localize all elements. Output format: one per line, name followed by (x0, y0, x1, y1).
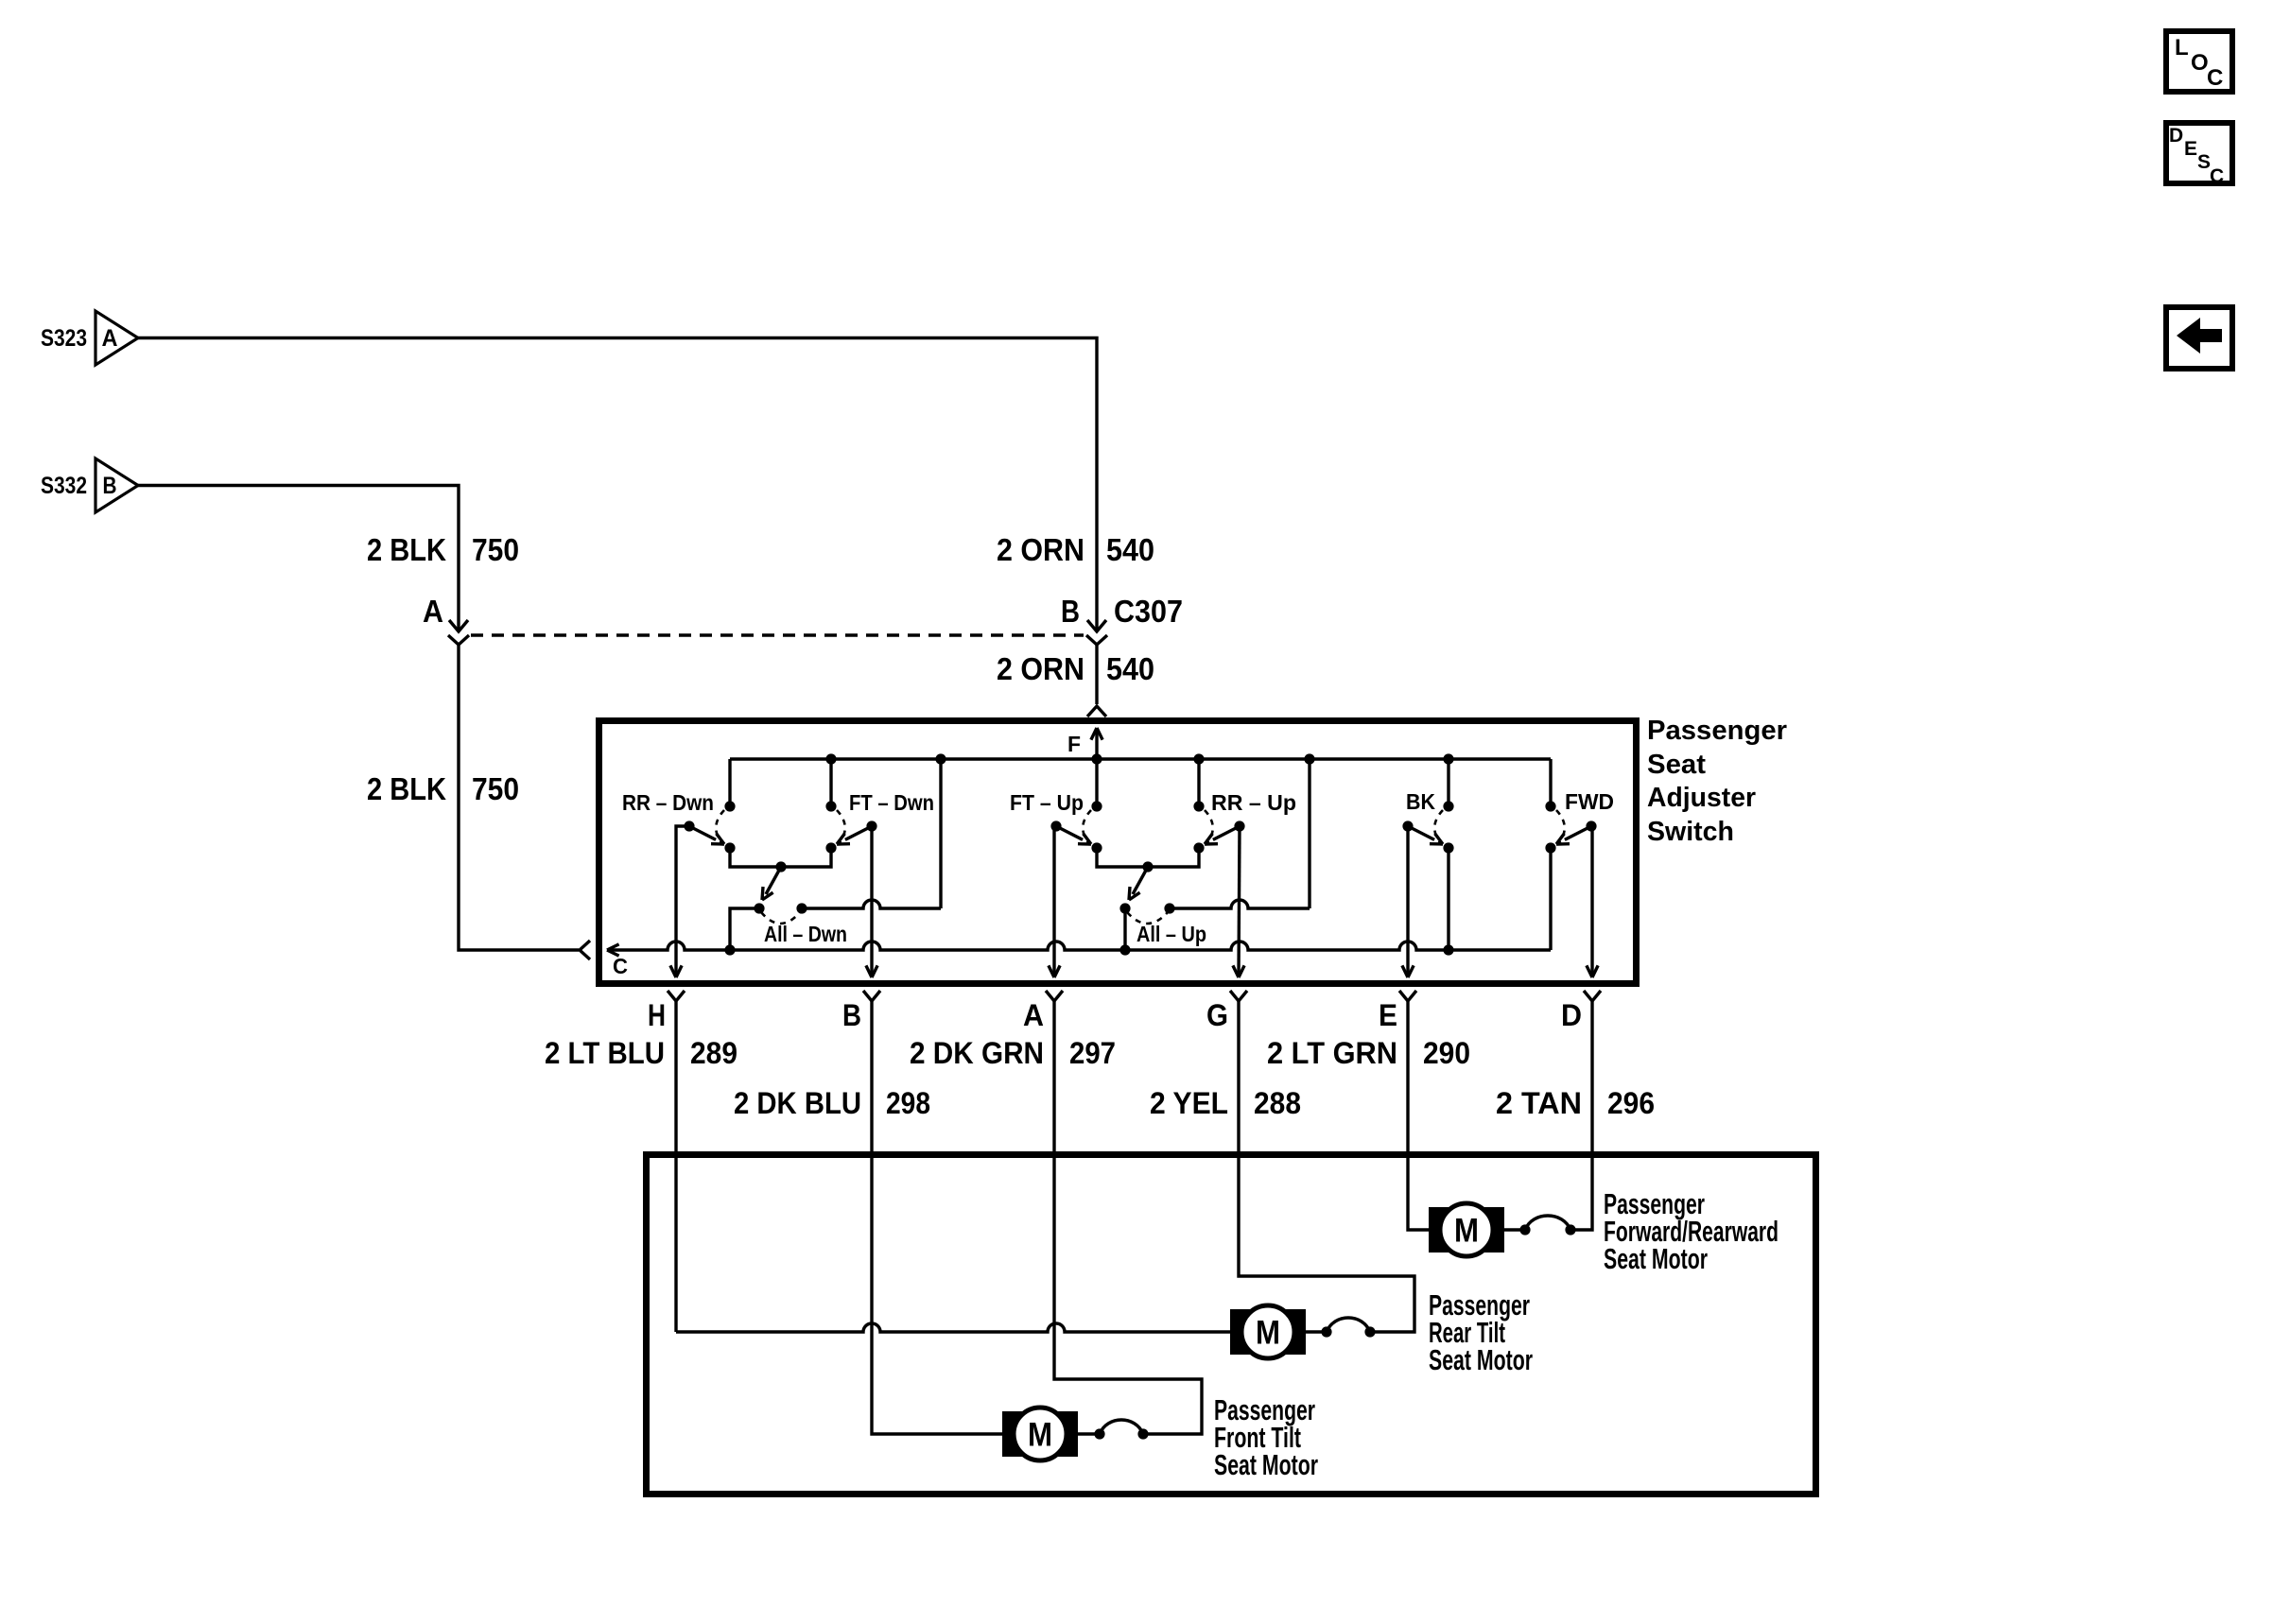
feed bus riser to FT-Up contact (1095, 759, 1098, 806)
motor M3 brush link arc (1078, 1420, 1143, 1434)
svg-text:2 DK BLU: 2 DK BLU (734, 1086, 861, 1120)
label RR – Dwn (622, 790, 714, 815)
wire All-Dwn left contact to ground bus (730, 908, 759, 950)
label Adjuster (switch title) (1647, 783, 1756, 813)
wire pin G to rear tilt motor (2 YEL 288) (1239, 1009, 1414, 1332)
wire FT-Up common to RR-Up common (1097, 848, 1199, 867)
label Passenger (M1) (1604, 1187, 1705, 1220)
svg-text:M: M (1256, 1315, 1280, 1352)
switch pin F female connector symbol (1087, 706, 1106, 717)
label Seat Motor (M3) (1214, 1448, 1318, 1481)
svg-text:2 BLK: 2 BLK (367, 771, 446, 806)
feed bus riser to FT-Dwn contact (829, 759, 832, 806)
label Seat Motor (M1) (1604, 1242, 1708, 1275)
svg-text:H: H (648, 998, 666, 1032)
svg-text:2 LT GRN: 2 LT GRN (1267, 1036, 1397, 1070)
switch internal feed bus (730, 757, 1551, 760)
svg-text:S332: S332 (41, 473, 87, 499)
pin G exit arrow (1233, 965, 1244, 977)
connector C307 dashed body line (471, 633, 1084, 636)
switch internal ground bus to pin C (608, 942, 1551, 950)
svg-text:B: B (103, 473, 117, 499)
label pin H (648, 998, 666, 1032)
pin A female connector symbol (1046, 991, 1063, 1009)
pin B exit arrow (866, 965, 877, 977)
junction on feed bus at All-Up riser (1304, 753, 1314, 764)
wire All-Up left contact to ground bus (1123, 908, 1126, 950)
junction on feed bus at BK (1443, 753, 1453, 764)
label Passenger (M3) (1214, 1393, 1315, 1426)
legend box DESC (2166, 123, 2232, 187)
motor M2 brush link left dot (1321, 1326, 1331, 1337)
switch pin C female connector symbol (580, 941, 590, 959)
svg-text:C307: C307 (1114, 594, 1183, 629)
svg-text:Passenger: Passenger (1647, 716, 1787, 746)
svg-text:297: 297 (1069, 1036, 1116, 1070)
wire FWD common to ground bus (1549, 848, 1552, 950)
switch FWD contacts and blade (1545, 801, 1596, 853)
label Passenger (M2) (1429, 1288, 1530, 1322)
legend box LOC (2166, 31, 2232, 92)
svg-text:D: D (1561, 998, 1582, 1032)
motor assembly box (647, 1155, 1816, 1494)
label A (connector C307 cavity) (423, 594, 443, 629)
connector C307 cavity B symbols (arrow + socket) (1086, 620, 1107, 645)
svg-text:RR – Dwn: RR – Dwn (622, 790, 714, 815)
wire pin D to fwd/rearward motor (2 TAN 296) (1570, 1009, 1592, 1230)
pin H female connector symbol (668, 991, 685, 1009)
wire RR-Dwn pivot to pin H (676, 826, 689, 977)
motor M1 brush link arc (1504, 1216, 1570, 1230)
label 288 (1254, 1086, 1301, 1120)
svg-text:2 LT BLU: 2 LT BLU (545, 1036, 665, 1070)
svg-text:L: L (2175, 35, 2189, 60)
wire C307-B to switch pin F (2 ORN 540) (1095, 644, 1098, 704)
wire pin A to front tilt motor (2 DK GRN 297) (1054, 1009, 1202, 1434)
label 290 (1423, 1036, 1470, 1070)
switch All-Dwn right contact (796, 903, 807, 913)
svg-text:Switch: Switch (1647, 817, 1734, 847)
motor M1 brush link right dot (1565, 1224, 1575, 1235)
svg-text:FT – Up: FT – Up (1010, 790, 1084, 815)
label pin G (1206, 998, 1228, 1032)
svg-text:BK: BK (1406, 789, 1435, 814)
svg-text:C: C (613, 954, 628, 978)
svg-text:All – Up: All – Up (1136, 922, 1206, 946)
svg-text:A: A (423, 594, 443, 629)
feed bus riser to All-Dwn (939, 759, 942, 908)
label 540 (below C307) (1106, 651, 1154, 686)
label Passenger (switch title) (1647, 716, 1787, 746)
label 2 ORN (below C307) (997, 651, 1084, 686)
pin D exit arrow (1587, 965, 1598, 977)
feed bus riser to RR-Up contact (1197, 759, 1200, 806)
wire All-Dwn right contact to feed bus (802, 900, 941, 908)
label 2 TAN (1496, 1086, 1582, 1120)
svg-text:540: 540 (1106, 532, 1154, 567)
svg-text:S: S (2197, 151, 2211, 173)
switch All-Up blade (1129, 867, 1148, 900)
label Seat (switch title) (1647, 750, 1706, 780)
junction All-Dwn common (775, 861, 786, 872)
wire pin H to rear tilt motor (2 LT BLU 289) (676, 1009, 1230, 1332)
svg-text:C: C (2210, 165, 2224, 187)
motor M2 brush link right dot (1364, 1326, 1375, 1337)
switch All-Up left contact (1119, 903, 1130, 913)
svg-text:296: 296 (1607, 1086, 1655, 1120)
svg-text:FT – Dwn: FT – Dwn (849, 790, 934, 815)
svg-text:2 BLK: 2 BLK (367, 532, 446, 567)
svg-text:Seat: Seat (1647, 750, 1706, 780)
svg-text:FWD: FWD (1565, 789, 1614, 814)
svg-text:540: 540 (1106, 651, 1154, 686)
switch All-Dwn dashed arc (761, 912, 800, 924)
switch box: Passenger Seat Adjuster Switch (599, 721, 1637, 984)
motor M3 brush link left dot (1094, 1428, 1104, 1439)
wire RR-Up pivot to pin G (1239, 826, 1240, 977)
pin C exit arrow (607, 944, 619, 956)
svg-text:O: O (2191, 50, 2209, 76)
label pin A (1023, 998, 1044, 1032)
label Seat Motor (M2) (1429, 1343, 1533, 1376)
svg-text:B: B (842, 998, 861, 1032)
svg-text:M: M (1454, 1213, 1479, 1250)
svg-text:F: F (1067, 732, 1081, 756)
motor M1 brush link left dot (1519, 1224, 1530, 1235)
switch FT-Up contacts and blade (1050, 801, 1102, 853)
label BK (1406, 789, 1435, 814)
label FWD (1565, 789, 1614, 814)
svg-text:RR – Up: RR – Up (1211, 790, 1296, 815)
junction on feed bus at FT-Dwn (825, 753, 836, 764)
wire RR-Dwn common to FT-Dwn common (730, 848, 831, 867)
feed bus riser to RR-Dwn contact (728, 759, 731, 806)
label 2 LT GRN (1267, 1036, 1397, 1070)
feed bus riser to FWD contact (1549, 759, 1552, 806)
pin E exit arrow (1402, 965, 1414, 977)
svg-text:S323: S323 (41, 325, 87, 352)
svg-text:E: E (2184, 138, 2197, 160)
pin G female connector symbol (1230, 991, 1247, 1009)
feed bus riser to BK contact (1447, 759, 1449, 806)
svg-text:E: E (1379, 998, 1397, 1032)
wire pin E to fwd/rearward motor (2 LT GRN 290) (1408, 1009, 1429, 1230)
junction ground bus / All-Dwn (724, 944, 735, 955)
svg-text:D: D (2169, 125, 2183, 147)
label FT – Dwn (849, 790, 934, 815)
svg-text:All – Dwn: All – Dwn (764, 922, 847, 946)
pin A exit arrow (1049, 965, 1060, 977)
label Front Tilt (M3) (1214, 1421, 1301, 1454)
switch RR-Up contacts and blade (1193, 801, 1244, 853)
svg-text:750: 750 (472, 532, 519, 567)
label 2 DK GRN (910, 1036, 1044, 1070)
switch RR-Dwn contacts and blade (684, 801, 735, 853)
svg-text:750: 750 (472, 771, 519, 806)
pin H exit arrow (670, 965, 682, 977)
motor M1: Passenger Forward/Rearward Seat Motor (1429, 1203, 1504, 1256)
wire FT-Up pivot to pin A (1052, 826, 1055, 977)
wire BK common to ground bus (1447, 848, 1449, 950)
svg-text:2 YEL: 2 YEL (1150, 1086, 1228, 1120)
switch pin F entry arrow (1091, 728, 1102, 759)
pin E female connector symbol (1399, 991, 1416, 1009)
wire FWD pivot to pin D (1590, 826, 1593, 977)
label 2 LT BLU (545, 1036, 665, 1070)
wire pin B to front tilt motor (2 DK BLU 298) (872, 1009, 1002, 1434)
label 296 (1607, 1086, 1655, 1120)
svg-text:M: M (1028, 1417, 1052, 1454)
motor M2: Passenger Rear Tilt Seat Motor (1230, 1305, 1306, 1358)
junction ground bus / BK common (1443, 944, 1453, 955)
label 750 (above C307) (472, 532, 519, 567)
label Switch (switch title) (1647, 817, 1734, 847)
splice connector S323 (triangle, cavity A) (41, 311, 138, 365)
wire S323 to C307-B (2 ORN 540) (138, 338, 1097, 631)
wire C307-A to switch pin C (2 BLK 750) (459, 644, 579, 950)
svg-text:Seat Motor: Seat Motor (1429, 1343, 1533, 1376)
label 2 BLK (at switch) (367, 771, 446, 806)
connector C307 cavity A symbols (arrow + socket) (448, 620, 469, 645)
pin B female connector symbol (863, 991, 880, 1009)
pin D female connector symbol (1584, 991, 1601, 1009)
junction on feed bus at All-Dwn riser (935, 753, 946, 764)
label 2 YEL (1150, 1086, 1228, 1120)
switch All-Up right contact (1164, 903, 1174, 913)
wire FT-Dwn pivot to pin B (870, 826, 873, 977)
svg-text:288: 288 (1254, 1086, 1301, 1120)
junction on feed bus at F/FT-Up (1091, 753, 1102, 764)
junction on feed bus at RR-Up (1193, 753, 1204, 764)
label 2 ORN (above C307) (997, 532, 1084, 567)
label C307 (1114, 594, 1183, 629)
svg-text:Seat Motor: Seat Motor (1604, 1242, 1708, 1275)
label Forward/Rearward (M1) (1604, 1215, 1778, 1248)
label 540 (above C307) (1106, 532, 1154, 567)
label RR – Up (1211, 790, 1296, 815)
label All – Dwn (764, 922, 847, 946)
label 2 DK BLU (734, 1086, 861, 1120)
label 297 (1069, 1036, 1116, 1070)
label FT – Up (1010, 790, 1084, 815)
svg-text:2 TAN: 2 TAN (1496, 1086, 1582, 1120)
wire BK pivot to pin E (1406, 826, 1409, 977)
wire All-Up right contact to feed bus (1170, 900, 1310, 908)
svg-text:2 DK GRN: 2 DK GRN (910, 1036, 1044, 1070)
svg-text:2 ORN: 2 ORN (997, 651, 1084, 686)
feed bus riser to All-Up (1308, 759, 1310, 908)
motor M2 brush link arc (1306, 1318, 1370, 1332)
svg-text:298: 298 (886, 1086, 930, 1120)
wire S332 to C307-A (2 BLK 750) (138, 486, 459, 631)
svg-text:G: G (1206, 998, 1228, 1032)
label F (switch pin) (1067, 732, 1081, 756)
label 289 (690, 1036, 737, 1070)
svg-text:A: A (1023, 998, 1044, 1032)
svg-text:2 ORN: 2 ORN (997, 532, 1084, 567)
switch FT-Dwn contacts and blade (825, 801, 876, 853)
label All – Up (1136, 922, 1206, 946)
motor M3 brush link right dot (1137, 1428, 1148, 1439)
label 298 (886, 1086, 930, 1120)
label Rear Tilt (M2) (1429, 1316, 1505, 1349)
svg-text:289: 289 (690, 1036, 737, 1070)
label 2 BLK (above C307) (367, 532, 446, 567)
switch All-Dwn blade (762, 867, 781, 900)
switch BK contacts and blade (1402, 801, 1453, 853)
label C (switch pin) (613, 954, 628, 978)
splice connector S332 (triangle, cavity B) (41, 458, 138, 512)
junction All-Up common (1142, 861, 1153, 872)
svg-text:B: B (1061, 594, 1080, 629)
junction ground bus / All-Up (1119, 944, 1130, 955)
label 750 (at switch) (472, 771, 519, 806)
label pin D (1561, 998, 1582, 1032)
legend box back-arrow (2166, 307, 2232, 369)
svg-text:Adjuster: Adjuster (1647, 783, 1756, 813)
svg-text:Seat Motor: Seat Motor (1214, 1448, 1318, 1481)
switch All-Up dashed arc (1127, 912, 1168, 924)
svg-text:290: 290 (1423, 1036, 1470, 1070)
motor M3: Passenger Front Tilt Seat Motor (1002, 1408, 1078, 1460)
svg-text:C: C (2207, 65, 2223, 91)
switch All-Dwn left contact (754, 903, 764, 913)
label pin B (842, 998, 861, 1032)
label B (connector C307 cavity) (1061, 594, 1080, 629)
label pin E (1379, 998, 1397, 1032)
svg-text:A: A (102, 325, 118, 352)
